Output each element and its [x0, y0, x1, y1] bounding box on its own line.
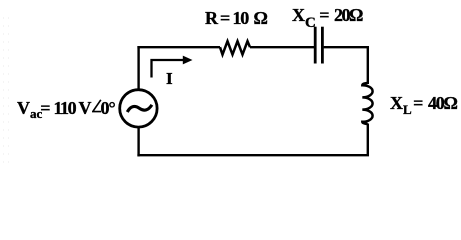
label XL = 40 Ohm — [390, 94, 457, 112]
wire resistor to capacitor — [250, 46, 314, 48]
current arrow I — [152, 60, 185, 78]
ac source circle V1 — [120, 90, 157, 127]
capacitor C left plate — [314, 27, 317, 64]
wire inductor to bottom-right corner — [367, 124, 369, 156]
capacitor C right plate — [321, 27, 324, 64]
label Vac = 110V angle 0 deg — [17, 99, 116, 117]
wire source top vertical (source up to top wire) — [137, 46, 139, 89]
resistor R — [220, 41, 250, 54]
wire bottom horizontal — [137, 154, 369, 156]
wire right vertical (corner down to inductor) — [367, 46, 369, 84]
wire top-left horizontal (source to resistor) — [137, 46, 220, 48]
wire bottom-left vertical (bottom wire up to source) — [137, 128, 139, 157]
sine symbol inside source — [127, 105, 152, 112]
inductor XL coil — [362, 83, 372, 124]
label current I — [166, 70, 173, 87]
label XC = 20 Ohm — [292, 6, 362, 24]
label R = 10 Ohm — [205, 9, 268, 27]
wire capacitor to top-right corner — [324, 46, 368, 48]
